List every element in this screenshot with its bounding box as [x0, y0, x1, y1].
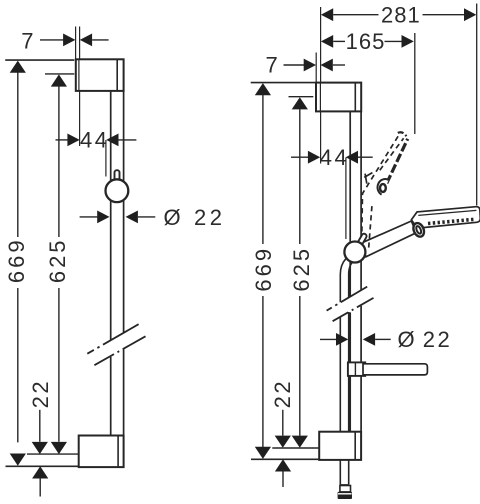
slider knob	[115, 170, 120, 182]
head spray nozzles	[428, 219, 474, 223]
phantom bottom curl	[378, 179, 389, 195]
break symbol diagonal 2	[94, 336, 145, 365]
dimension 165: right extension line	[414, 33, 416, 134]
svg-text:669: 669	[251, 246, 276, 292]
head inner top line	[418, 210, 476, 215]
dimension 7: lines and arrows	[40, 39, 64, 41]
669 top reference line	[5, 59, 74, 61]
svg-text:7: 7	[21, 29, 33, 54]
svg-text:625: 625	[45, 237, 70, 283]
dimension 22: stem and arrows	[39, 410, 41, 442]
svg-text:7: 7	[265, 53, 277, 78]
wall bar right line	[360, 111, 362, 433]
dimension 165: lines, arrows	[321, 35, 333, 48]
dimension 44: extension line	[345, 158, 347, 240]
669 dimension: top arrow, stem	[10, 61, 26, 73]
669 dimension: arrows and stem	[255, 83, 271, 95]
669 top reference line	[251, 82, 316, 84]
bottom wall bracket	[79, 436, 124, 468]
svg-text:22: 22	[270, 379, 295, 408]
hand shower handle	[361, 221, 416, 257]
hose end	[340, 484, 348, 486]
669 dimension: bottom arrow	[10, 454, 26, 466]
bottom reference line B (669)	[6, 465, 79, 467]
svg-text:22: 22	[423, 327, 452, 352]
625 top reference line	[289, 96, 314, 98]
dimension 44: line, arrows	[291, 156, 308, 158]
svg-text:22: 22	[28, 379, 53, 408]
svg-text:165: 165	[346, 29, 386, 54]
dimension 7: line and arrows	[284, 64, 305, 66]
soap dish collar	[348, 362, 365, 376]
phantom middle dashed edge	[369, 203, 373, 248]
625 dimension: arrows and stem	[292, 97, 308, 109]
dimension 281: lines, arrows	[321, 8, 333, 21]
phantom top cap	[398, 132, 407, 136]
svg-text:44: 44	[80, 128, 109, 153]
break symbol diagonal 1	[327, 287, 368, 311]
shower hose upper curve	[340, 259, 346, 485]
625 top reference line	[45, 73, 74, 75]
slider knob (rotated)	[357, 233, 367, 245]
svg-text:44: 44	[320, 145, 349, 170]
svg-text:281: 281	[381, 2, 421, 27]
dimension 44: line, arrows	[56, 139, 68, 141]
top wall bracket	[316, 83, 361, 112]
dimension 7: extension lines	[316, 7, 320, 164]
dimension diameter 22: lines and arrows	[320, 338, 336, 340]
phantom heavy face edge	[387, 139, 408, 184]
dimension diameter 22: lines and arrows	[80, 216, 98, 218]
break symbol diagonal 1	[87, 324, 138, 354]
break symbol diagonal 2	[333, 298, 374, 321]
hand shower head	[411, 207, 480, 228]
phantom bottom-left corner	[364, 173, 372, 184]
wall bar right line	[123, 91, 125, 437]
slider circle	[344, 242, 365, 263]
dimension 281: right extension line	[476, 4, 478, 206]
bottom reference line B	[251, 458, 319, 460]
bottom wall bracket	[319, 432, 361, 460]
625 dimension: top arrow, stem	[51, 74, 67, 86]
slider circle	[106, 179, 129, 202]
bottom reference line A	[272, 447, 319, 449]
svg-text:Ø: Ø	[397, 327, 414, 352]
dimension 7: extension lines	[76, 27, 80, 147]
top wall bracket	[76, 59, 124, 91]
svg-text:Ø: Ø	[164, 205, 181, 230]
625 dimension: bottom arrow	[51, 442, 67, 454]
dimension 22: stem and arrows	[282, 410, 284, 436]
svg-text:22: 22	[194, 205, 225, 230]
wall bar left line	[349, 111, 351, 433]
dimension 44: extension line to slider	[105, 140, 107, 177]
soap dish tray	[363, 364, 427, 375]
phantom (dashed) shower: left dashed edge + handle dash	[362, 135, 400, 241]
svg-text:625: 625	[289, 246, 314, 292]
svg-text:669: 669	[4, 237, 29, 283]
ball joint	[411, 221, 426, 238]
bottom reference line A (625/22)	[27, 453, 79, 455]
wall bar left line	[110, 91, 112, 437]
